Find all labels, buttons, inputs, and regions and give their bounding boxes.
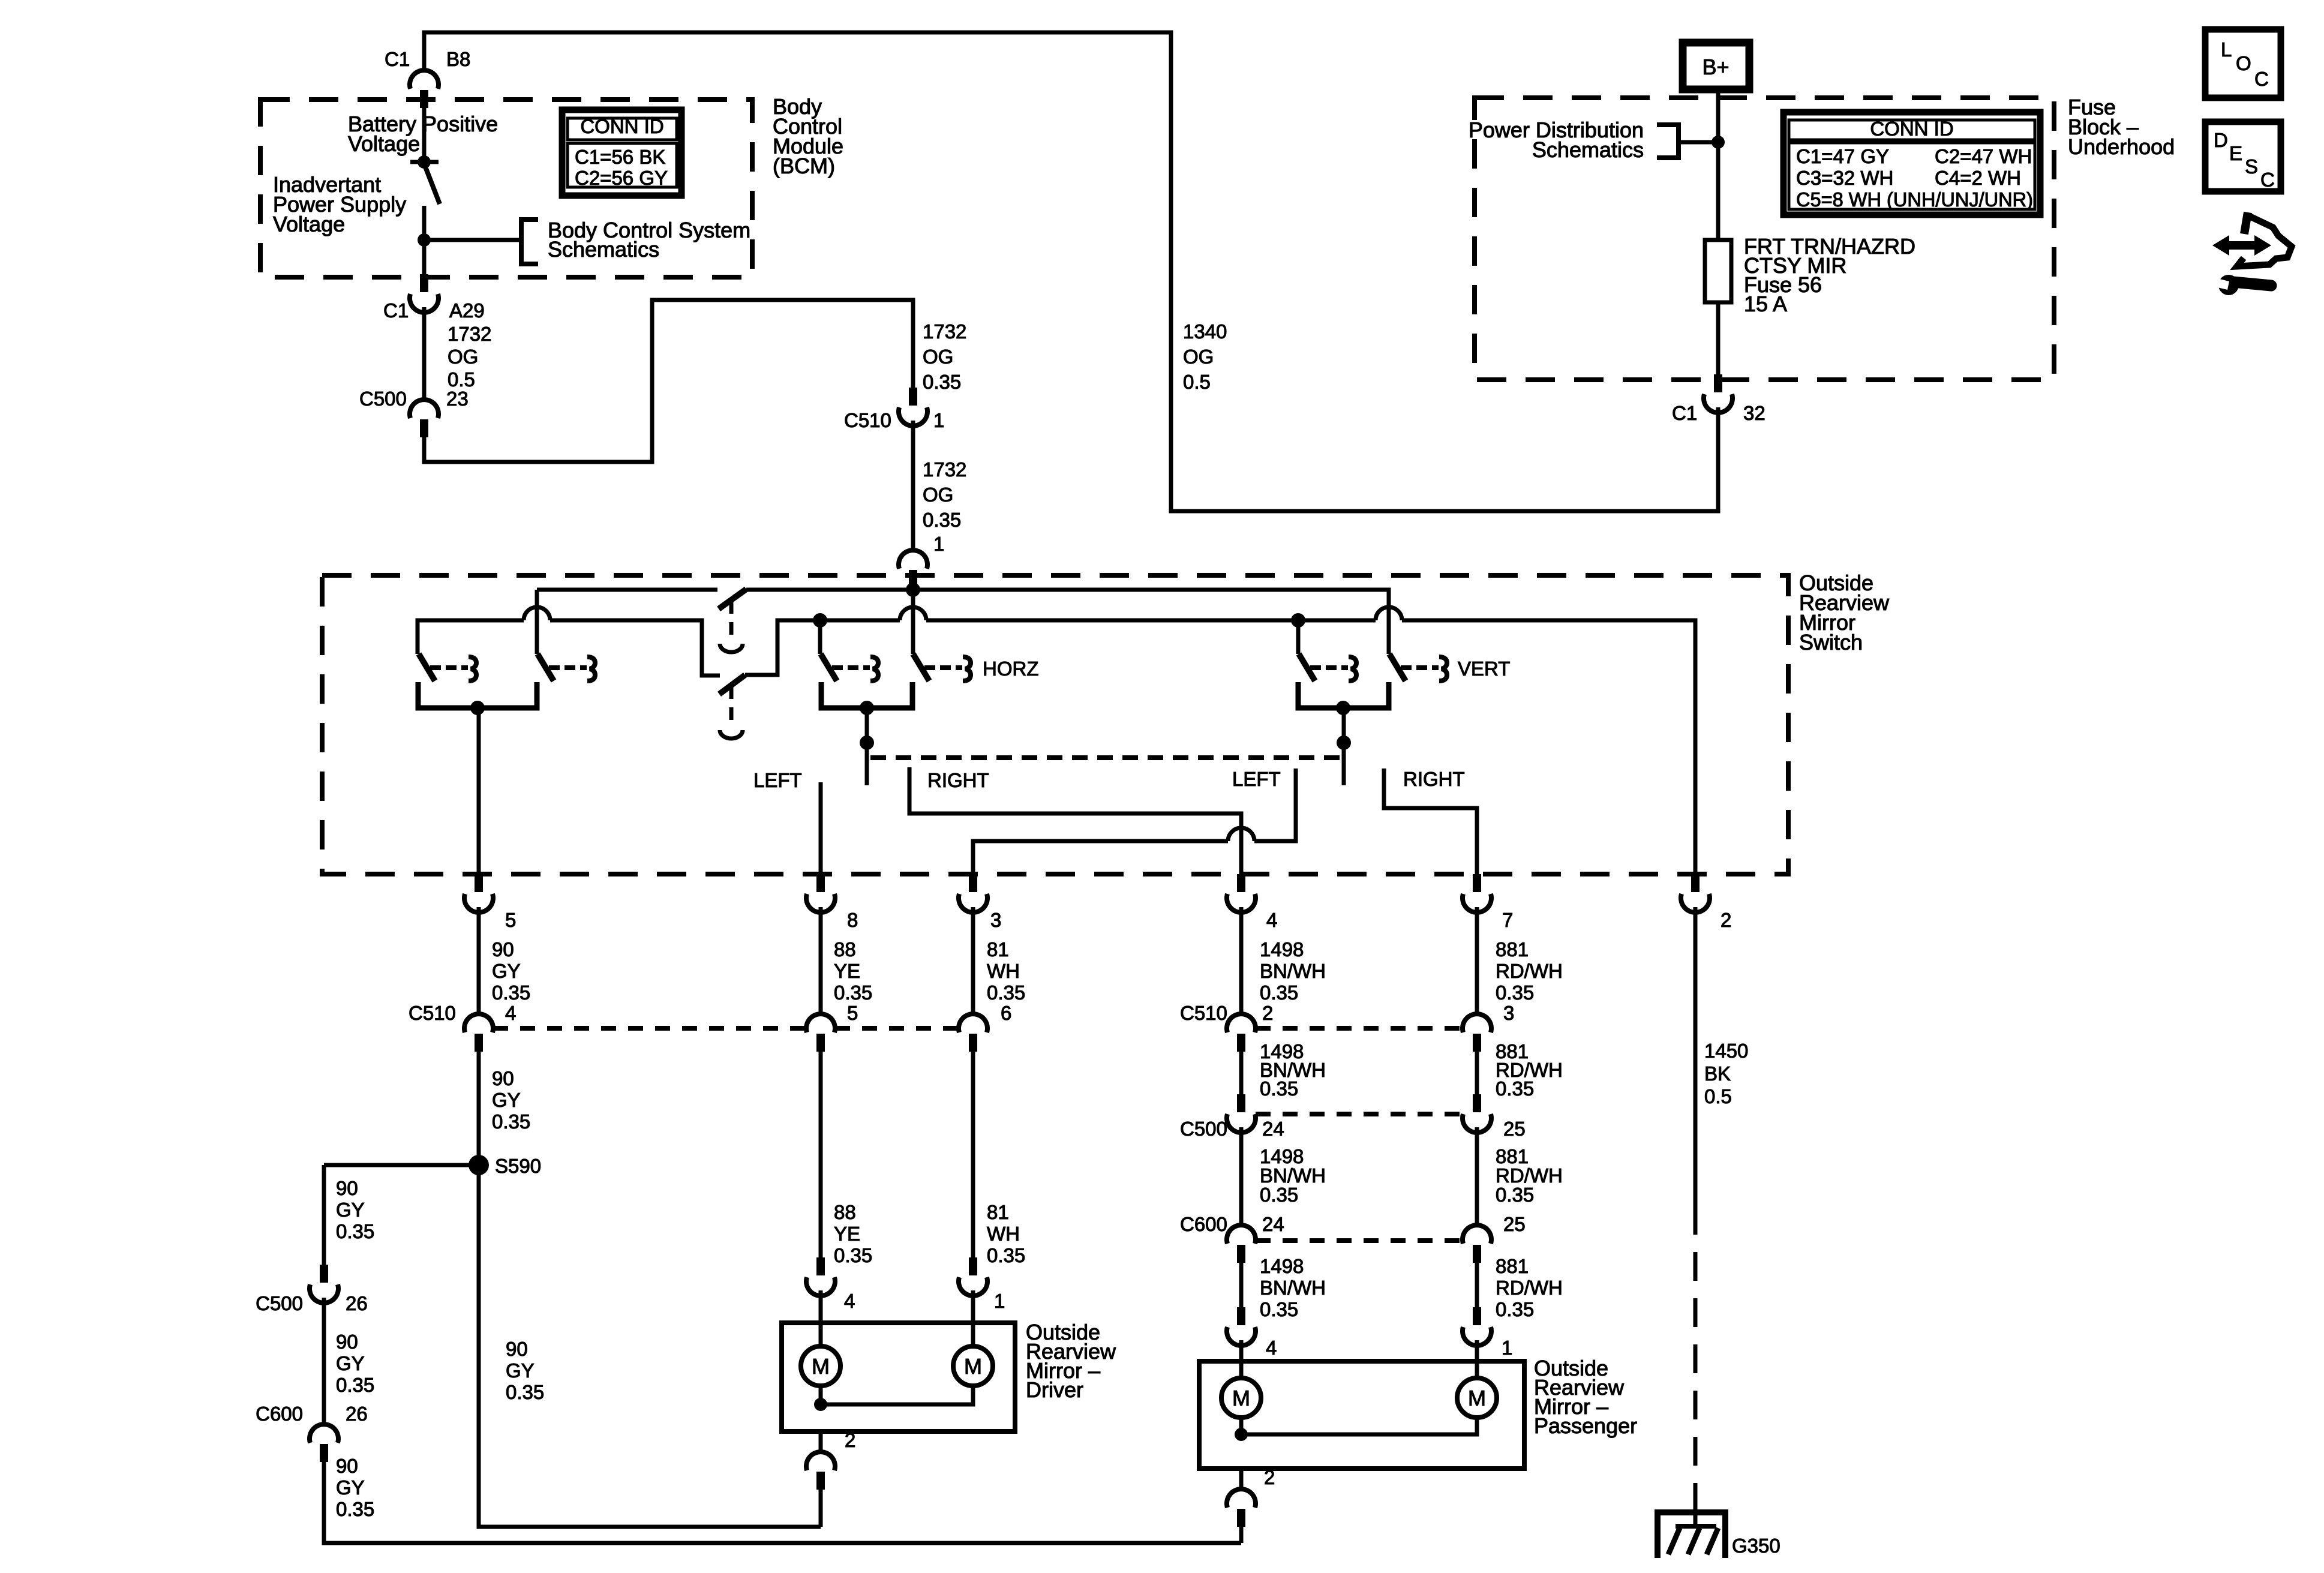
svg-text:90: 90 <box>506 1338 528 1360</box>
toggle detent symbol upper <box>720 644 743 652</box>
svg-text:WH: WH <box>987 960 1020 982</box>
wire label 90 GY 0.35 (below C510) <box>492 1067 530 1133</box>
wire C510-5 to driver mirror pin 4 <box>819 1052 823 1257</box>
wire: VERT RIGHT to pin 7 <box>1384 769 1477 874</box>
svg-text:C: C <box>2260 169 2275 191</box>
svg-text:BK: BK <box>1704 1062 1731 1085</box>
wire pin8 to C510-5 <box>819 907 823 1014</box>
wire label 1340 OG 0.5 <box>1183 320 1227 393</box>
wire label 81 WH 0.35 (lower) <box>987 1201 1025 1266</box>
svg-text:2: 2 <box>1721 909 1731 931</box>
svg-text:M: M <box>812 1354 830 1379</box>
svg-text:0.35: 0.35 <box>506 1381 544 1403</box>
motor M left (passenger) <box>1221 1378 1261 1418</box>
svg-text:24: 24 <box>1262 1213 1284 1235</box>
connector: switch pin 3 <box>959 874 987 912</box>
wire: 1732 OG to C500 <box>422 307 427 400</box>
svg-text:Schematics: Schematics <box>548 237 659 262</box>
blade of VERT left switch <box>1299 654 1315 681</box>
wire label 1498 BN/WH (b) <box>1260 1040 1326 1100</box>
wire label 90 GY 0.35 (left bottom) <box>336 1455 374 1520</box>
bus line 2: to toggle lower-left <box>550 620 720 676</box>
svg-text:90: 90 <box>492 1067 514 1089</box>
wire: top feed run B+/C1-32 to BCM C1-B8 <box>424 32 1718 511</box>
fixed contact of HORZ right switch <box>924 657 971 681</box>
svg-text:26: 26 <box>346 1403 368 1425</box>
wire hop at x=2069 <box>1228 828 1254 841</box>
svg-text:0.35: 0.35 <box>1260 1298 1298 1320</box>
svg-text:C3=32 WH: C3=32 WH <box>1796 167 1893 189</box>
connector driver mirror pin 2 <box>806 1452 835 1490</box>
svg-text:Passenger: Passenger <box>1534 1413 1637 1438</box>
toggle blade 1 <box>719 589 746 609</box>
svg-text:C2=47 WH: C2=47 WH <box>1935 145 2032 167</box>
svg-text:88: 88 <box>834 1201 856 1223</box>
wire C600-26 to passenger mirror pin 2 <box>324 1462 1241 1543</box>
svg-text:C600: C600 <box>1180 1213 1227 1235</box>
svg-text:C1=56 BK: C1=56 BK <box>575 146 665 168</box>
svg-text:L: L <box>2221 38 2232 61</box>
connector C600 pin 24 <box>1227 1225 1256 1263</box>
wire: branch to Body Control System Schematics <box>424 238 520 242</box>
svg-text:C500: C500 <box>359 388 407 410</box>
svg-text:GY: GY <box>336 1352 365 1374</box>
DESC box <box>2205 122 2281 191</box>
wire label 881 RD/WH 0.35 (pin7) <box>1496 938 1563 1004</box>
svg-text:4: 4 <box>844 1290 855 1312</box>
wire label 90 GY 0.35 (left mid) <box>336 1331 374 1396</box>
svg-text:0.35: 0.35 <box>923 371 961 393</box>
svg-text:GY: GY <box>336 1476 365 1499</box>
connector C510 pin 3 <box>1463 1014 1491 1052</box>
svg-text:OG: OG <box>448 346 478 368</box>
connector C510 pin 5 <box>806 1014 835 1052</box>
svg-text:0.35: 0.35 <box>834 1244 872 1266</box>
connector driver mirror pin 4 <box>806 1257 835 1296</box>
wire: to power distribution bracket <box>1679 140 1718 145</box>
svg-text:LEFT: LEFT <box>753 769 802 791</box>
svg-text:5: 5 <box>505 909 516 931</box>
svg-text:81: 81 <box>987 938 1009 960</box>
svg-text:0.5: 0.5 <box>1183 371 1211 393</box>
svg-text:HORZ: HORZ <box>983 658 1039 680</box>
svg-text:C4=2 WH: C4=2 WH <box>1935 167 2021 189</box>
connector: mirror switch pin 1 <box>899 550 927 588</box>
Outside Rearview Mirror - Driver box <box>782 1323 1015 1431</box>
fixed contact of select switch right <box>549 657 595 681</box>
wire label 88 YE 0.35 (lower) <box>834 1201 872 1266</box>
toggle detent symbol lower <box>720 730 743 739</box>
connector driver mirror pin 1 <box>959 1257 987 1296</box>
driver mirror internal link <box>821 1386 973 1404</box>
svg-text:C5=8 WH (UNH/UNJ/UNR): C5=8 WH (UNH/UNJ/UNR) <box>1796 188 2033 211</box>
connector C600 pin 25 <box>1463 1225 1491 1263</box>
svg-text:O: O <box>2236 52 2251 74</box>
svg-text:0.35: 0.35 <box>1260 981 1298 1004</box>
svg-text:C600: C600 <box>256 1403 303 1425</box>
svg-text:3: 3 <box>1503 1002 1514 1024</box>
fixed contact of VERT left switch <box>1310 657 1356 681</box>
connector C510 pin 4 <box>464 1014 493 1052</box>
svg-text:C2=56 GY: C2=56 GY <box>575 167 668 189</box>
connector passenger mirror pin 4 <box>1227 1307 1256 1346</box>
svg-text:B8: B8 <box>446 48 470 70</box>
B+ battery terminal <box>1683 43 1749 89</box>
svg-text:32: 32 <box>1743 402 1765 424</box>
svg-text:2: 2 <box>845 1429 855 1451</box>
wire: HORZ RIGHT to pin 4 <box>909 767 1241 874</box>
svg-text:VERT: VERT <box>1458 658 1510 680</box>
Outside Rearview Mirror Switch dashed box <box>322 575 1788 874</box>
svg-text:GY: GY <box>336 1199 365 1221</box>
svg-text:1498: 1498 <box>1260 938 1304 960</box>
wire: VERT LEFT to pin 3 <box>973 841 1228 874</box>
connector C500 pin 24 <box>1227 1094 1256 1133</box>
svg-text:Schematics: Schematics <box>1532 137 1644 162</box>
CONN ID table (BCM) <box>562 110 681 196</box>
svg-text:23: 23 <box>446 388 469 410</box>
svg-text:2: 2 <box>1264 1466 1275 1488</box>
wire pin7 to C510-3 <box>1475 907 1479 1014</box>
svg-text:1: 1 <box>1502 1337 1512 1359</box>
BCM internal switch (inadvertent power) <box>418 155 431 169</box>
svg-text:1: 1 <box>994 1290 1005 1312</box>
svg-text:RIGHT: RIGHT <box>927 769 989 791</box>
wire C600-24 to passenger pin 4 <box>1239 1263 1244 1307</box>
svg-text:B+: B+ <box>1702 55 1729 79</box>
svg-text:C500: C500 <box>1180 1118 1227 1140</box>
svg-text:0.35: 0.35 <box>834 981 872 1004</box>
svg-text:0.35: 0.35 <box>336 1498 374 1520</box>
svg-text:M: M <box>964 1354 982 1379</box>
C500 dashed row <box>1256 1112 1463 1116</box>
wire C500-24 to C600-24 <box>1239 1127 1244 1225</box>
svg-text:M: M <box>1468 1386 1486 1410</box>
fixed contact of select switch left <box>430 657 476 681</box>
connector C1 pin B8 (BCM) <box>410 70 439 108</box>
wire: BCM internal below switch <box>422 206 427 274</box>
svg-text:BN/WH: BN/WH <box>1260 960 1326 982</box>
wire pin5 to C510-4 <box>477 907 481 1014</box>
wire S590 to C500-26 <box>322 1165 326 1265</box>
svg-text:S: S <box>2245 155 2258 178</box>
wire C510-4 to S590 <box>477 1052 481 1155</box>
svg-text:1498: 1498 <box>1260 1255 1304 1277</box>
wire hop at x=1522 <box>900 607 926 620</box>
bus line 2: toggle lower-right to HORZ <box>745 620 900 675</box>
wire: 1732 OG to switch pin 1 <box>911 421 915 550</box>
svg-text:4: 4 <box>1266 909 1277 931</box>
wire: HORZ LEFT to pin 8 <box>819 782 823 874</box>
wires from S590 <box>324 1165 821 1527</box>
wire label 88 YE 0.35 (pin8) <box>834 938 872 1004</box>
svg-text:C1: C1 <box>1672 402 1697 424</box>
svg-text:Underhood: Underhood <box>2068 134 2175 159</box>
wire label 881 RD/WH (c) <box>1496 1145 1563 1206</box>
wire into driver mirror <box>819 1290 823 1346</box>
wire label 90 GY 0.35 (pin5) <box>492 938 530 1004</box>
BCM module dashed box <box>260 100 752 277</box>
svg-text:0.35: 0.35 <box>492 1110 530 1133</box>
svg-text:1450: 1450 <box>1704 1040 1748 1062</box>
connector C510 pin 2 <box>1227 1014 1256 1052</box>
connector C500 pin 23 <box>410 400 439 437</box>
svg-text:RD/WH: RD/WH <box>1496 1277 1563 1299</box>
svg-text:81: 81 <box>987 1201 1009 1223</box>
svg-text:1: 1 <box>933 533 944 555</box>
service icon: double arrow, outline, wrench <box>2212 212 2292 295</box>
wire pin4 to C510-2 <box>1239 907 1244 1014</box>
bracket <box>521 220 538 264</box>
wire label 1732 OG 0.5 <box>448 323 491 391</box>
blade of HORZ right switch <box>913 654 929 681</box>
splice S590 <box>469 1155 489 1175</box>
wire: HORZ wiper stub <box>865 708 869 785</box>
wire: fuse to C1-32 <box>1716 302 1721 374</box>
wire driver pin 2 exit <box>819 1431 823 1452</box>
connector: switch pin 8 <box>806 874 835 912</box>
svg-text:0.35: 0.35 <box>492 981 530 1004</box>
connector C600 pin 26 <box>310 1424 338 1462</box>
blade of select switch right <box>538 654 554 681</box>
CONN ID table (Fuse Block) <box>1783 112 2040 215</box>
wire C510-2 to C500-24 <box>1239 1052 1244 1094</box>
bracket <box>1657 125 1679 158</box>
svg-text:G350: G350 <box>1732 1535 1780 1557</box>
wire label 1732 OG 0.35 upper <box>923 320 966 393</box>
svg-text:1732: 1732 <box>448 323 491 345</box>
bus line 2: sw1 pivot riser + left run <box>418 620 524 654</box>
throw bracket of HORZ pair <box>821 682 912 708</box>
wire label 90 GY 0.35 (S590 down) <box>506 1338 544 1403</box>
motor M right (passenger) <box>1457 1378 1497 1418</box>
wire: select output to pin 5 <box>477 708 481 874</box>
svg-text:Switch: Switch <box>1799 630 1863 655</box>
wire C510-6 to driver mirror pin 1 <box>971 1052 975 1257</box>
svg-text:0.35: 0.35 <box>336 1374 374 1396</box>
svg-text:90: 90 <box>492 938 514 960</box>
svg-text:90: 90 <box>336 1177 358 1199</box>
bus line 1 right segment + VERT right drop <box>746 590 1389 654</box>
wire C500-25 to C600-25 <box>1475 1127 1479 1225</box>
riser HORZ right <box>911 590 915 654</box>
connector C510 pin 1 <box>899 388 927 426</box>
wire into passenger mirror pin1 <box>1475 1340 1479 1378</box>
svg-text:5: 5 <box>847 1002 858 1024</box>
svg-text:(BCM): (BCM) <box>773 154 835 178</box>
svg-text:24: 24 <box>1262 1118 1284 1140</box>
fuse FRT TRN/HAZRD Fuse 56 15A <box>1705 240 1731 302</box>
svg-text:4: 4 <box>505 1002 516 1024</box>
svg-text:YE: YE <box>834 1223 860 1245</box>
throw bracket of select pair <box>418 682 537 708</box>
svg-text:GY: GY <box>492 1089 521 1111</box>
svg-text:0.35: 0.35 <box>987 1244 1025 1266</box>
svg-text:0.35: 0.35 <box>987 981 1025 1004</box>
wire: VERT LEFT west segment <box>1254 769 1296 841</box>
fixed contact of VERT right switch <box>1401 657 1447 681</box>
wire passenger pin 2 exit <box>1239 1469 1244 1489</box>
svg-text:LEFT: LEFT <box>1232 768 1281 790</box>
wire label 1498 BN/WH 0.35 (pin4) <box>1260 938 1326 1004</box>
svg-text:2: 2 <box>1262 1002 1273 1024</box>
wire label 1732 OG 0.35 lower <box>923 458 966 531</box>
svg-text:BN/WH: BN/WH <box>1260 1277 1326 1299</box>
C510 dashed row c <box>1256 1026 1463 1031</box>
riser VERT left <box>1296 620 1301 654</box>
wire into driver mirror <box>971 1290 975 1346</box>
svg-text:881: 881 <box>1496 1255 1529 1277</box>
wire label 1498 BN/WH (c) <box>1260 1145 1326 1206</box>
svg-text:0.5: 0.5 <box>1704 1085 1732 1107</box>
svg-text:YE: YE <box>834 960 860 982</box>
svg-text:WH: WH <box>987 1223 1020 1245</box>
svg-text:1732: 1732 <box>923 458 966 481</box>
svg-text:1: 1 <box>933 409 944 431</box>
svg-text:0.35: 0.35 <box>1496 1298 1534 1320</box>
blade of HORZ left switch <box>821 654 837 681</box>
svg-text:Voltage: Voltage <box>348 131 420 156</box>
wire 1450 BK dashed part <box>1694 1206 1698 1494</box>
Outside Rearview Mirror - Passenger box <box>1199 1361 1524 1469</box>
blade of select switch left <box>419 654 435 681</box>
svg-text:GY: GY <box>492 960 521 982</box>
svg-text:C510: C510 <box>1180 1002 1227 1024</box>
wire hop at x=895 <box>524 607 550 620</box>
svg-text:C500: C500 <box>256 1292 303 1314</box>
wire stub into switch <box>911 588 915 590</box>
svg-text:M: M <box>1232 1386 1250 1410</box>
connector passenger mirror pin 2 <box>1227 1489 1256 1527</box>
svg-text:CONN ID: CONN ID <box>1870 118 1953 140</box>
svg-text:25: 25 <box>1503 1213 1526 1235</box>
wire label 1498 BN/WH (d) <box>1260 1255 1326 1320</box>
wire: 1732 OG C500-23 to C510-1 <box>424 300 913 462</box>
toggle linkage dash lower <box>729 686 734 726</box>
svg-text:0.35: 0.35 <box>923 509 961 531</box>
ground G350 <box>1658 1494 1725 1558</box>
svg-text:C1: C1 <box>383 299 409 322</box>
svg-text:90: 90 <box>336 1331 358 1353</box>
wire C600-25 to passenger pin 1 <box>1475 1263 1479 1307</box>
svg-text:4: 4 <box>1266 1337 1277 1359</box>
svg-text:0.35: 0.35 <box>336 1220 374 1242</box>
connector: switch pin 5 <box>464 874 493 912</box>
svg-text:88: 88 <box>834 938 856 960</box>
svg-text:90: 90 <box>336 1455 358 1477</box>
LOC box <box>2205 29 2281 98</box>
svg-text:3: 3 <box>990 909 1001 931</box>
svg-text:GY: GY <box>506 1359 535 1382</box>
fixed contact of HORZ left switch <box>832 657 878 681</box>
svg-text:C510: C510 <box>409 1002 456 1024</box>
wire driver pin2 down <box>819 1490 823 1527</box>
riser HORZ left <box>818 620 822 654</box>
switch pivot tick <box>410 160 439 164</box>
svg-text:0.35: 0.35 <box>1496 981 1534 1004</box>
Fuse Block dashed box <box>1475 98 2054 380</box>
svg-text:C1=47 GY: C1=47 GY <box>1796 145 1889 167</box>
wire C510-3 to C500-25 <box>1475 1052 1479 1094</box>
wire: BCM internal above switch <box>422 103 427 158</box>
throw bracket of VERT pair <box>1298 682 1389 708</box>
svg-text:RD/WH: RD/WH <box>1496 960 1563 982</box>
svg-text:Driver: Driver <box>1026 1377 1083 1402</box>
connector C500 pin 26 <box>310 1265 338 1303</box>
mech linkage dashed <box>870 755 1341 760</box>
svg-text:15 A: 15 A <box>1744 292 1787 316</box>
svg-text:1732: 1732 <box>923 320 966 343</box>
svg-text:0.35: 0.35 <box>1260 1077 1298 1100</box>
wire label 881 RD/WH (b) <box>1496 1040 1563 1100</box>
svg-text:C: C <box>2254 68 2269 90</box>
svg-text:CONN ID: CONN ID <box>580 115 663 137</box>
svg-text:D: D <box>2214 129 2228 151</box>
wire label 881 RD/WH (d) <box>1496 1255 1563 1320</box>
bus line 1 left segment <box>537 588 717 592</box>
svg-text:OG: OG <box>923 346 953 368</box>
wire: B+ to fuse <box>1716 89 1721 240</box>
C510 dashed row b <box>835 1026 959 1031</box>
svg-text:8: 8 <box>847 909 858 931</box>
C600 dashed row <box>1256 1238 1463 1243</box>
svg-text:Voltage: Voltage <box>273 212 345 236</box>
wire C500-26 to C600-26 <box>322 1298 326 1424</box>
connector passenger mirror pin 1 <box>1463 1307 1491 1346</box>
wire pin3 to C510-6 <box>971 907 975 1014</box>
svg-text:RIGHT: RIGHT <box>1403 768 1465 790</box>
svg-text:0.35: 0.35 <box>1496 1184 1534 1206</box>
toggle blade 2 <box>719 675 745 694</box>
wire label 90 GY 0.35 (left branch top) <box>336 1177 374 1242</box>
connector C1 pin A29 (BCM) <box>410 274 439 313</box>
svg-text:1340: 1340 <box>1183 320 1227 343</box>
motor M right (driver) <box>953 1346 993 1386</box>
passenger mirror internal link <box>1241 1418 1477 1434</box>
wire passenger pin2 down <box>1239 1527 1244 1543</box>
svg-text:0.35: 0.35 <box>1260 1184 1298 1206</box>
connector: switch pin 4 <box>1227 874 1256 912</box>
bus line 2: HORZ to VERT <box>926 619 1376 623</box>
svg-text:A29: A29 <box>449 299 485 322</box>
connector C1 pin 32 (fuse block) <box>1704 374 1733 413</box>
wire 1450 BK solid part <box>1694 907 1698 1206</box>
wire label 1450 BK 0.5 (pin2) <box>1704 1040 1748 1107</box>
svg-text:OG: OG <box>923 484 953 506</box>
svg-text:C510: C510 <box>844 409 891 431</box>
bus line 2: right run down to pin 2 <box>1402 620 1695 874</box>
svg-text:881: 881 <box>1496 938 1529 960</box>
svg-text:26: 26 <box>346 1292 368 1314</box>
svg-text:0.35: 0.35 <box>1496 1077 1534 1100</box>
svg-text:6: 6 <box>1001 1002 1011 1024</box>
svg-text:25: 25 <box>1503 1118 1526 1140</box>
riser sw2 <box>535 590 539 654</box>
svg-text:OG: OG <box>1183 346 1214 368</box>
C510 dashed row a <box>493 1026 806 1031</box>
wire label 81 WH 0.35 (pin3) <box>987 938 1025 1004</box>
toggle linkage dash upper <box>729 601 734 640</box>
connector: switch pin 2 <box>1681 874 1710 912</box>
svg-text:7: 7 <box>1502 909 1513 931</box>
svg-text:E: E <box>2229 142 2242 164</box>
svg-text:C1: C1 <box>385 48 410 70</box>
connector C510 pin 6 <box>959 1014 987 1052</box>
motor M left (driver) <box>801 1346 840 1386</box>
blade of VERT right switch <box>1389 654 1406 681</box>
svg-text:S590: S590 <box>495 1155 541 1177</box>
wire hop at x=2315 <box>1376 607 1402 620</box>
